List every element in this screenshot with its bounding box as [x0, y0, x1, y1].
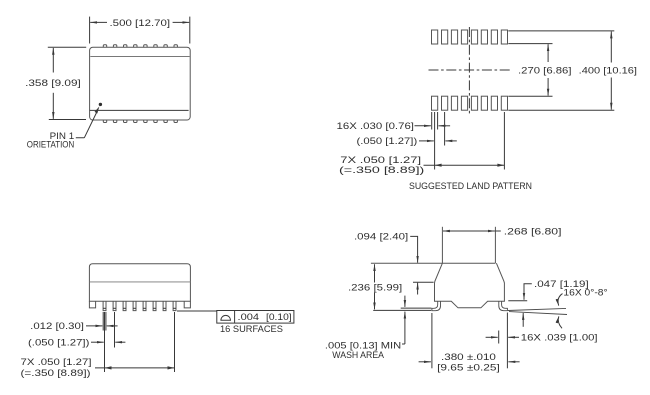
svg-text:.012 [0.30]: .012 [0.30] [30, 321, 84, 331]
8 bottom tabs [103, 120, 177, 122]
svg-text:WASH AREA: WASH AREA [332, 350, 384, 360]
svg-text:7X .050 [1.27]: 7X .050 [1.27] [21, 357, 92, 367]
svg-text:[9.65 ±0.25]: [9.65 ±0.25] [437, 363, 500, 373]
angle leader arcs [558, 294, 562, 306]
body outline [435, 263, 505, 308]
8 leads [103, 301, 176, 310]
lead ticks [103, 307, 176, 309]
svg-text:(.050 [1.27]): (.050 [1.27]) [357, 136, 418, 146]
foot angle lines [508, 308, 566, 310]
dim .400 vertical [610, 32, 612, 63]
svg-text:[0.10]: [0.10] [266, 312, 292, 322]
profile of a surface symbol [220, 315, 231, 320]
svg-text:16X 0°-8°: 16X 0°-8° [563, 288, 608, 298]
vertical centerline [468, 27, 470, 116]
dim .270 vertical [547, 44, 549, 62]
dim 7X .050 span line [424, 164, 505, 166]
svg-text:.094 [2.40]: .094 [2.40] [354, 232, 408, 242]
feature control frame [217, 311, 294, 324]
svg-text:7X .050 [1.27]: 7X .050 [1.27] [340, 155, 421, 165]
dim 16X .030 arrows [415, 125, 431, 127]
svg-text:16 SURFACES: 16 SURFACES [220, 324, 283, 334]
leader to flatness frame [177, 310, 217, 312]
svg-text:.270 [6.86]: .270 [6.86] [518, 65, 572, 75]
left lead [432, 301, 441, 310]
bottom seam line [90, 109, 189, 111]
svg-text:.380 ±.010: .380 ±.010 [441, 352, 496, 362]
body top line [371, 262, 496, 264]
svg-text:.400 [10.16]: .400 [10.16] [579, 65, 637, 75]
right corner tab [184, 301, 190, 308]
svg-text:.236 [5.99]: .236 [5.99] [348, 282, 402, 292]
svg-text:SUGGESTED LAND PATTERN: SUGGESTED LAND PATTERN [409, 181, 532, 191]
svg-text:ORIETATION: ORIETATION [27, 140, 74, 150]
dim .380 ext lines [431, 313, 433, 368]
svg-text:16X .030 [0.76]: 16X .030 [0.76] [337, 121, 415, 131]
package outline (side view) [89, 264, 190, 302]
svg-text:.500 [12.70]: .500 [12.70] [110, 18, 171, 28]
svg-text:(=.350 [8.89]): (=.350 [8.89]) [21, 368, 91, 378]
dim .268 line [443, 230, 460, 232]
svg-text:.268 [6.80]: .268 [6.80] [504, 226, 562, 236]
dim .012 arrows [86, 325, 102, 327]
8 top tabs [103, 45, 177, 47]
cap side extension lines [441, 227, 443, 263]
pad ext lines below [431, 112, 433, 130]
svg-text:(.050 [1.27]): (.050 [1.27]) [28, 338, 89, 348]
svg-text:.004: .004 [238, 312, 260, 322]
dim .500 dimension line [90, 21, 107, 23]
dim 7X .050 span line [95, 367, 175, 369]
wash area lines [401, 307, 432, 309]
package outline (top view) [90, 47, 191, 120]
dim (.050) arrows [419, 140, 434, 142]
dim .500 extension lines [89, 17, 91, 44]
right lead [499, 301, 508, 310]
dim .358 dimension line [52, 48, 54, 73]
8 top pads [432, 30, 508, 44]
horizontal centerline [429, 69, 513, 71]
shoulder ext line [413, 281, 434, 283]
left corner tab [89, 301, 95, 308]
dim .358 extension lines [48, 46, 86, 48]
ext lines below leads [102, 312, 104, 331]
svg-text:.358 [9.09]: .358 [9.09] [25, 78, 81, 88]
8 bottom pads [432, 96, 508, 110]
dim 16X .039 [498, 331, 500, 344]
top seam line [90, 56, 190, 58]
dim .380 arrows [419, 361, 431, 363]
svg-text:16X .039 [1.00]: 16X .039 [1.00] [521, 333, 598, 343]
ext lines right of pads [508, 30, 614, 32]
dim .005 arrows [404, 296, 406, 307]
pin 1 dot [99, 103, 102, 106]
svg-text:(=.350 [8.89]): (=.350 [8.89]) [339, 165, 424, 175]
dim .236 [374, 264, 376, 282]
seam [89, 281, 190, 283]
dim (.050) arrows [91, 341, 104, 343]
dim .094 leader [410, 236, 417, 256]
pin 1 leader [76, 111, 98, 138]
dim .047 [524, 284, 532, 294]
